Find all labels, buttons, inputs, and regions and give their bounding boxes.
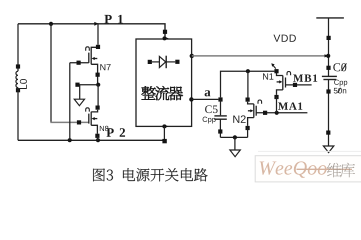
- wire: N7 source ground spur: [78, 84, 99, 86]
- label 50n: [334, 88, 338, 94]
- label N8: [100, 126, 104, 131]
- transistor N2 (mirrored): [248, 100, 262, 126]
- rectifier bottom pin: [162, 124, 166, 128]
- label 整流器 (rectifier): [141, 86, 155, 99]
- ground symbol near N7: [74, 99, 84, 106]
- label Cpp (C5 value): [203, 117, 208, 122]
- rectifier top pin: [163, 30, 167, 34]
- diode inside rectifier: [152, 56, 175, 68]
- ground symbol below C0: [323, 146, 333, 153]
- wire: left column from inductor to bottom rail: [17, 88, 19, 141]
- caption 图3 电源开关电路: [93, 168, 105, 181]
- label N2: [233, 115, 239, 122]
- wire: left column down to inductor: [17, 24, 19, 71]
- wire: node a riser to N2/N1 drains: [221, 71, 275, 97]
- label C0: [333, 63, 340, 71]
- faint separator line: [258, 150, 361, 152]
- transistor N7 (NMOS): [86, 47, 98, 85]
- wire: N2 gate / MA1 net: [256, 112, 307, 114]
- label L0 (rotated): [20, 85, 27, 89]
- wire: node a: [191, 98, 218, 100]
- rectifier right pin 1 (VDD side): [190, 54, 194, 58]
- inductor L0: [16, 71, 18, 87]
- label C5: [205, 105, 212, 113]
- node junction on top rail feeding P2 gate line: [49, 22, 53, 26]
- wire: N7 source to P2 drain: [97, 85, 99, 106]
- wire: x70 vertical from N7 gate to bottom rail: [69, 63, 71, 141]
- wire: top rail from inductor top to rectifier input pin: [18, 24, 165, 37]
- label P1: [104, 15, 111, 24]
- label a: [205, 90, 211, 96]
- capacitor C0: [322, 76, 337, 79]
- node P1 junction arrow on top rail: [94, 22, 98, 26]
- transistor N1 (mirrored): [277, 72, 291, 95]
- capacitor C5: [214, 100, 227, 138]
- VDD supply bar at top right: [316, 17, 344, 19]
- label MA1: [278, 102, 288, 109]
- label Cpp (C0): [334, 80, 339, 85]
- rectifier block box: [136, 39, 192, 126]
- N1 drain arrow: [273, 65, 276, 69]
- wire: N7 drain riser from top rail: [97, 24, 99, 45]
- ground symbol below C5/N2: [230, 150, 240, 157]
- watermark box: [255, 156, 361, 182]
- wire: VDD rail (gray): [192, 55, 328, 57]
- wire: C5/N2 source to ground: [220, 136, 247, 138]
- label N7: [100, 64, 105, 70]
- wire: gray horizontal into P2 gate: [50, 121, 88, 123]
- label N1: [263, 73, 268, 79]
- wire: bottom rail: [18, 139, 163, 141]
- wire: vertical from top rail down to P2 gate corner: [50, 24, 52, 123]
- wire: right branch down from supply bar: [328, 18, 330, 76]
- watermark WeeQoo: [260, 162, 277, 175]
- wire: N7 gate to x70 vertical: [70, 62, 89, 64]
- watermark 维库: [327, 163, 342, 178]
- rectifier right pin 2 (node a): [189, 97, 193, 101]
- label MB1: [293, 74, 303, 81]
- wire: N1 gate / MB1 net: [286, 84, 312, 86]
- transistor P2: [86, 108, 98, 134]
- label P2: [106, 128, 113, 137]
- label VDD: [273, 35, 280, 42]
